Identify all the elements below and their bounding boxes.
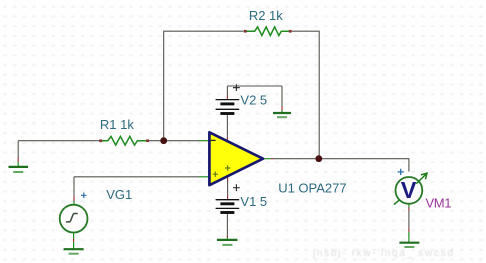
svg-text:R2 1k: R2 1k <box>249 8 283 23</box>
svg-text:VG1: VG1 <box>106 187 132 202</box>
svg-text:VM1: VM1 <box>426 196 452 211</box>
svg-text:jnsbj- rkw-'lnqa_ swcsd: jnsbj- rkw-'lnqa_ swcsd <box>312 248 455 259</box>
svg-text:U1 OPA277: U1 OPA277 <box>278 180 346 195</box>
svg-text:V2 5: V2 5 <box>240 93 267 108</box>
svg-text:V: V <box>401 177 417 203</box>
svg-text:R1 1k: R1 1k <box>100 117 134 132</box>
svg-text:V1 5: V1 5 <box>240 194 267 209</box>
